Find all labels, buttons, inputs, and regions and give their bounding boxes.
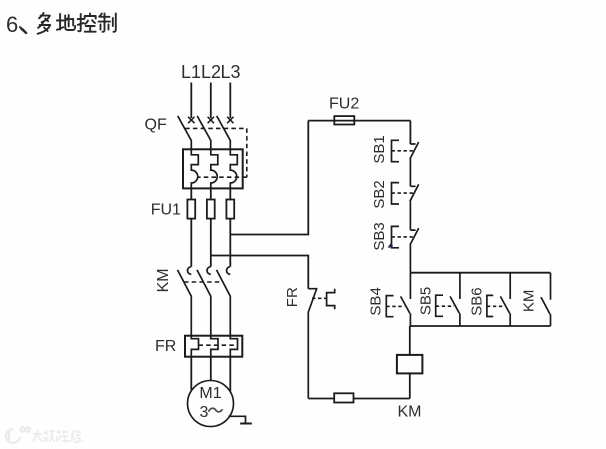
wire FU2 feed (308, 120, 410, 122)
earth bar (240, 423, 252, 425)
wire pole2 to FU1 (210, 188, 212, 199)
KM main contact pole3 (217, 267, 231, 336)
KM main contact pole2 (197, 267, 211, 336)
SB1 dashed link (392, 150, 414, 152)
wire control chain down (409, 121, 411, 144)
FR control contact (308, 288, 317, 399)
FR heater box (185, 336, 242, 357)
svg-text:FU1: FU1 (151, 202, 181, 219)
svg-text:3: 3 (200, 404, 209, 421)
SB6 branch contact (500, 273, 510, 326)
svg-text:SB5: SB5 (417, 287, 434, 315)
QF trip element pole3 (230, 149, 237, 188)
FR actuator dashed link (312, 297, 327, 299)
wire pole2 to motor (210, 357, 212, 381)
motor earth wire (229, 416, 246, 423)
wire KM coil to bottom (409, 373, 411, 398)
wire L2 drop (210, 83, 212, 119)
QF pole2 terminal x (208, 117, 214, 123)
motor M1 circle (188, 381, 234, 427)
ink blot artifact near SB3 (388, 243, 393, 248)
QF trip element pole2 (211, 149, 218, 188)
watermark logo (6, 427, 30, 443)
wire L3 drop (229, 83, 231, 119)
QF pole3 terminal x (227, 117, 233, 123)
QF pole3 blade (217, 116, 231, 149)
svg-text:M1: M1 (199, 385, 221, 402)
QF trip unit box (183, 149, 243, 188)
SB3 actuator (392, 226, 400, 247)
svg-text:L2: L2 (201, 62, 221, 82)
wire phase2 tap to control return (211, 256, 308, 289)
svg-text:FU2: FU2 (329, 96, 359, 113)
QF pole2 blade (197, 116, 211, 149)
svg-text:SB1: SB1 (371, 135, 388, 163)
SB5 actuator (436, 295, 443, 316)
wire rail to KM coil (409, 326, 411, 355)
SB3 dashed link (392, 236, 414, 238)
svg-text:L1: L1 (181, 62, 201, 82)
SB6 actuator (487, 295, 493, 316)
wire pole3 to motor (229, 357, 231, 392)
KM aux contact branch (541, 273, 551, 326)
SB4 branch contact (401, 273, 411, 326)
SB4 actuator (386, 296, 393, 317)
QF linkage dashed (185, 128, 247, 177)
title 6、多地控制 (6, 12, 116, 37)
SB5 dashed link (436, 305, 454, 307)
fuse FU2 (334, 116, 354, 124)
svg-text:L3: L3 (221, 62, 241, 82)
FR heater pole3 (230, 336, 237, 357)
parallel top rail (410, 272, 550, 274)
wire pole2 FU1 to KM, tap at 255.5 (210, 219, 212, 267)
SB3 contact (410, 228, 419, 273)
wire pole3 to FU1 (229, 188, 231, 199)
watermark text 大数跨境 (33, 430, 83, 442)
QF trip element pole1 (191, 149, 198, 188)
svg-text:SB4: SB4 (367, 287, 384, 315)
svg-text:6: 6 (6, 12, 18, 37)
SB1 contact (410, 142, 419, 186)
SB2 contact (410, 184, 419, 230)
SB5 branch contact (450, 273, 460, 326)
QF pole1 blade (178, 116, 192, 149)
wire bottom return (308, 398, 410, 400)
wire pole1 to motor (190, 357, 192, 390)
FR linkage dashed (199, 344, 238, 346)
parallel bottom rail (410, 325, 550, 327)
svg-text:KM: KM (155, 268, 172, 292)
svg-text:SB3: SB3 (371, 222, 388, 250)
FR heater pole2 (211, 336, 218, 357)
SB2 actuator (392, 183, 400, 204)
wire pole3 FU1 to KM, tap at 234.5 (229, 219, 231, 267)
svg-text:KM: KM (521, 290, 538, 313)
svg-text:FR: FR (155, 338, 176, 355)
SB2 dashed link (392, 192, 414, 194)
fuse FU1 pole3 (226, 200, 234, 219)
fuse FU1 pole1 (187, 200, 195, 219)
FR heater pole1 (191, 336, 198, 357)
wire L1 drop (190, 83, 192, 119)
KM coil (397, 355, 423, 374)
svg-text:QF: QF (145, 116, 167, 133)
wire pole1 FU1 to KM (190, 219, 192, 267)
KM main contact pole1 (178, 267, 192, 336)
wire pole1 to FU1 (190, 188, 192, 199)
KM linkage dashed (184, 281, 223, 283)
SB4 dashed link (386, 305, 404, 307)
svg-text:SB2: SB2 (371, 180, 388, 208)
SB1 actuator (392, 140, 400, 161)
svg-text:SB6: SB6 (469, 287, 486, 315)
svg-text:KM: KM (398, 404, 422, 421)
SB6 dashed link (487, 305, 504, 307)
fuse FU1 pole2 (207, 200, 215, 219)
QF pole1 terminal x (188, 117, 194, 123)
wire phase3 tap to control left rail top (230, 121, 308, 235)
fuse FU2b bottom (334, 393, 353, 402)
FR actuator (327, 289, 335, 309)
svg-text:FR: FR (284, 287, 301, 307)
